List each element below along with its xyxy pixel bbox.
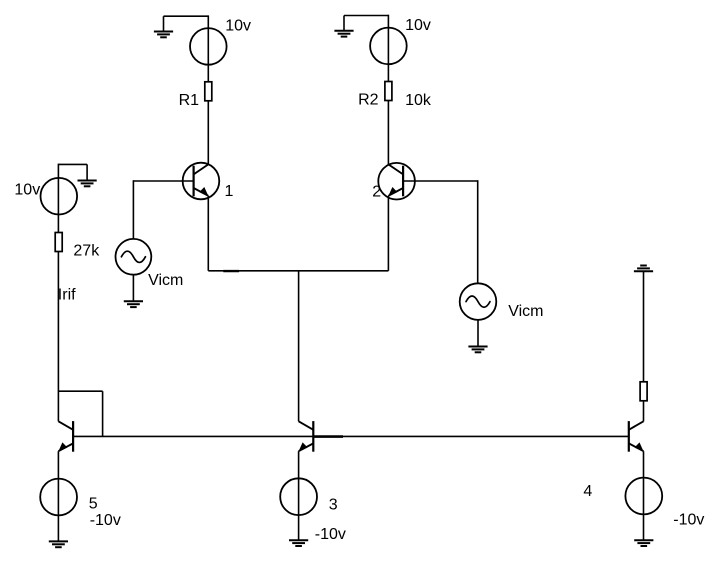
wire through V1 down to R1 <box>207 15 209 81</box>
ground (bottom right) <box>634 540 653 546</box>
wire V1 top to ground <box>164 15 209 17</box>
wire current-mirror base rail <box>73 435 629 437</box>
label Irif <box>58 287 76 304</box>
wire emitters rail <box>208 270 388 272</box>
label 10k (R2 value) <box>405 92 432 109</box>
wire R2 to Q2 collector <box>387 101 389 165</box>
transistor Q4 <box>629 421 644 452</box>
label R1 <box>179 92 200 109</box>
svg-text:10v: 10v <box>14 182 40 199</box>
label -10v (right) <box>673 511 704 528</box>
wire Q1 emitter down <box>207 196 209 271</box>
label 2 (Q2) <box>372 184 381 201</box>
svg-text:10v: 10v <box>405 17 431 34</box>
svg-text:1: 1 <box>225 183 234 200</box>
resistor 27k <box>55 233 62 252</box>
wire left branch top <box>58 163 87 165</box>
wire Vicm right to ground <box>477 320 479 347</box>
wire Q2 base to Vicm <box>477 180 479 283</box>
label Vicm (left) <box>148 272 183 289</box>
wire Q5 emitter down through V5b <box>57 451 59 541</box>
ground (bottom left) <box>49 541 68 547</box>
label 3 <box>329 497 338 514</box>
ground (right Vicm) <box>468 347 487 353</box>
wire Q4 emitter down through V4b <box>643 451 645 540</box>
wire Irif down <box>57 252 59 422</box>
wire Q3 emitter down through V3b <box>298 451 300 540</box>
svg-text:-10v: -10v <box>673 511 704 528</box>
voltage source V2 10v <box>370 28 407 65</box>
svg-text:10k: 10k <box>405 92 432 109</box>
wire Q1 base to Vicm <box>132 180 134 239</box>
svg-text:27k: 27k <box>73 242 100 259</box>
label 1 (Q1) <box>225 183 234 200</box>
svg-text:-10v: -10v <box>90 512 121 529</box>
wire ground to resistor <box>643 271 645 382</box>
label 10v (V1) <box>225 17 251 34</box>
svg-text:Vicm: Vicm <box>508 303 543 320</box>
label 10v (V2) <box>405 17 431 34</box>
ground (left Vicm) <box>124 301 143 307</box>
wire Q2 emitter down <box>387 196 389 271</box>
wire overlap mark on base rail <box>314 435 344 438</box>
resistor R1 <box>205 82 212 101</box>
voltage source 4 -10v <box>625 478 662 515</box>
wire Q5 collector-base tie vertical <box>102 391 104 436</box>
svg-text:-10v: -10v <box>315 526 346 543</box>
ac source Vicm (left) <box>115 239 151 275</box>
wire V2 top to ground <box>344 15 388 17</box>
label 5 <box>89 496 98 513</box>
ground (top, V2 return) <box>334 16 353 37</box>
label -10v (middle) <box>315 526 346 543</box>
svg-text:4: 4 <box>583 483 592 500</box>
label R2 <box>358 92 379 109</box>
svg-text:R2: R2 <box>358 92 379 109</box>
svg-text:5: 5 <box>89 496 98 513</box>
transistor Q1 <box>183 163 220 200</box>
svg-text:R1: R1 <box>179 92 200 109</box>
wire Q1 base <box>133 180 193 182</box>
ground (left 10v return) <box>78 164 97 186</box>
label Vicm (right) <box>508 303 543 320</box>
transistor Q2 (mirrored) <box>378 163 415 200</box>
label 4 <box>583 483 592 500</box>
ground (top left, V1 return) <box>154 16 173 37</box>
svg-text:3: 3 <box>329 497 338 514</box>
wire through V5 source <box>57 164 59 233</box>
voltage source 5 -10v <box>40 479 77 516</box>
svg-text:10v: 10v <box>225 17 251 34</box>
resistor (right branch) <box>640 382 647 401</box>
voltage source 10v (left) <box>41 178 78 215</box>
wire Vicm to ground <box>132 275 134 302</box>
transistor Q5 (mirrored) <box>58 421 73 452</box>
ground (top right, inverted) <box>634 266 653 272</box>
label 27k <box>73 242 100 259</box>
wire overlap mark on rail <box>223 270 239 272</box>
ac source Vicm (right) <box>460 283 497 320</box>
resistor R2 <box>385 82 392 101</box>
wire through V2 down to R2 <box>387 15 389 82</box>
wire Q2 base <box>403 180 478 182</box>
wire tail down to Q3 <box>298 271 300 422</box>
svg-text:Vicm: Vicm <box>148 272 183 289</box>
transistor Q3 (mirrored) <box>298 421 313 452</box>
label -10v (left) <box>90 512 121 529</box>
voltage source 3 -10v <box>280 478 317 515</box>
wire resistor to Q4 collector <box>643 401 645 422</box>
label 10v (left) <box>14 182 40 199</box>
voltage source V1 10v <box>190 28 227 65</box>
svg-text:Irif: Irif <box>58 287 76 304</box>
ground (bottom middle) <box>289 540 308 546</box>
wire Q5 collector-base tie horizontal <box>58 390 102 392</box>
svg-text:2: 2 <box>372 184 381 201</box>
wire R1 to Q1 collector <box>207 101 209 165</box>
